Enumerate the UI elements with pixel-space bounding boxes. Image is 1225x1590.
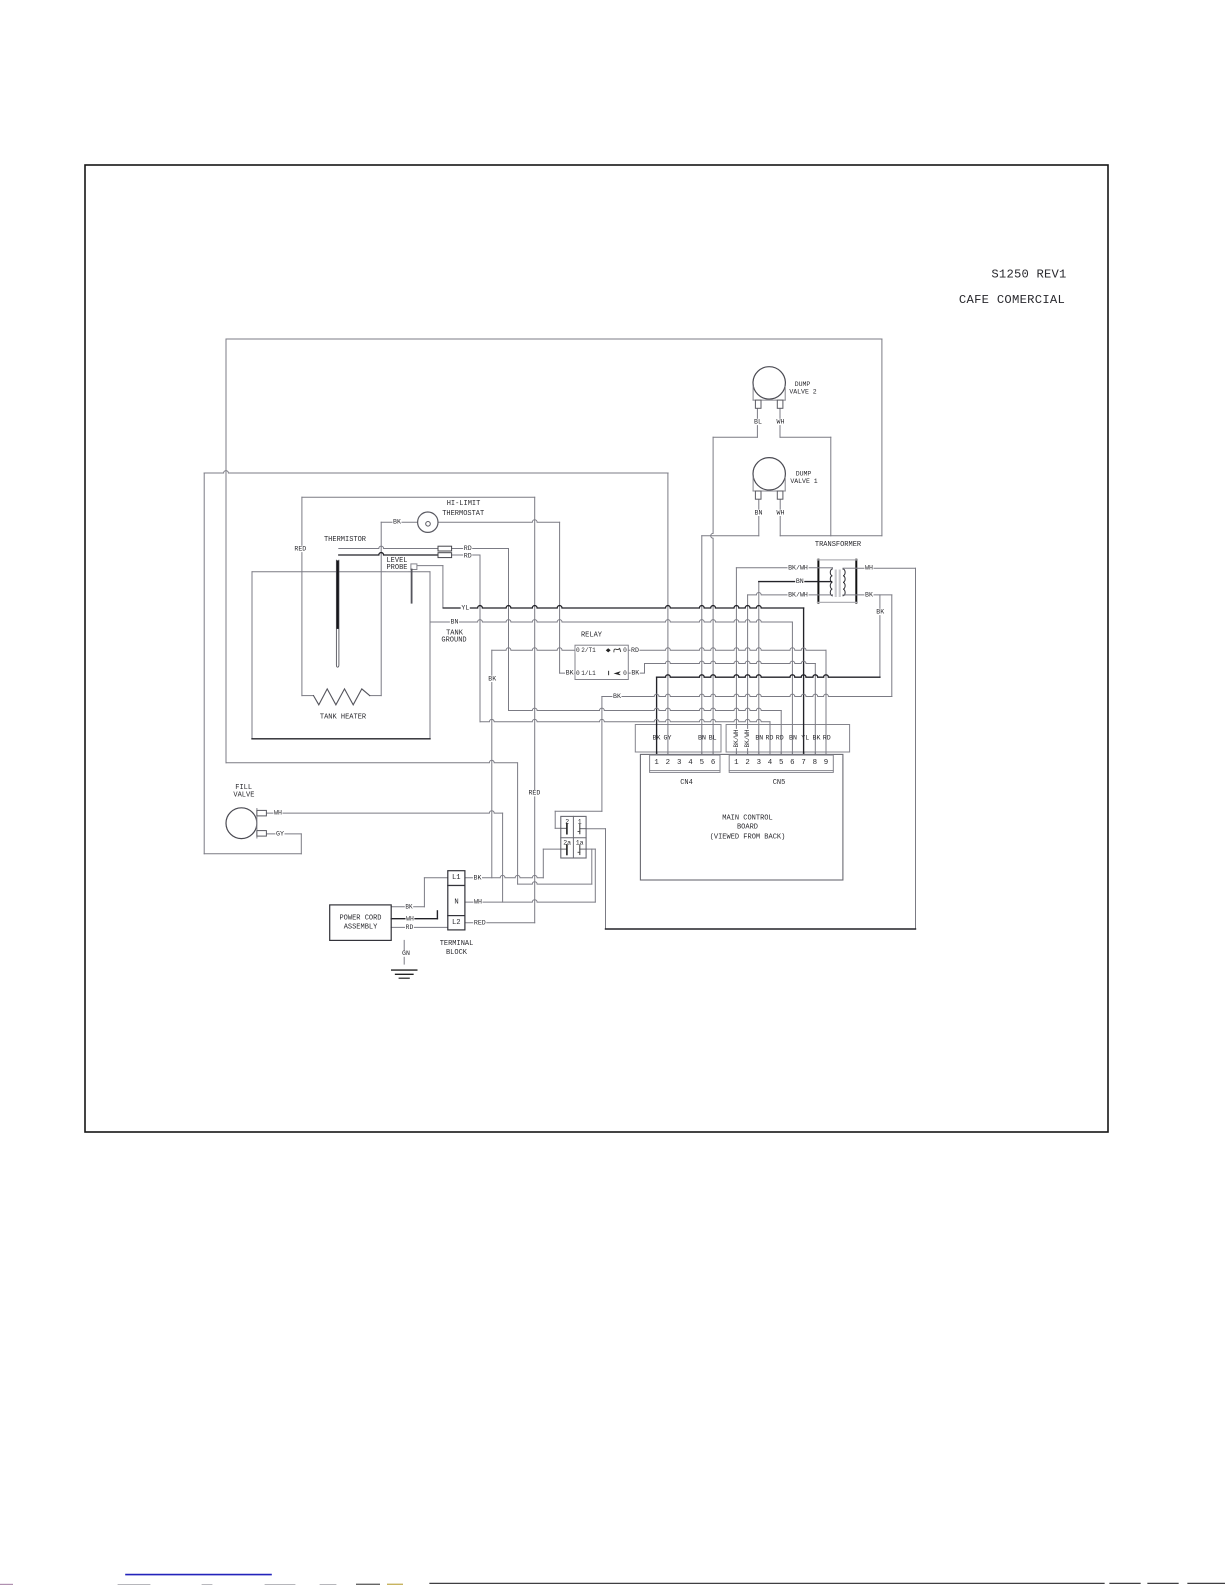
- svg-text:RD: RD: [464, 553, 472, 560]
- svg-text:5: 5: [779, 759, 783, 767]
- svg-text:6: 6: [711, 759, 715, 767]
- svg-text:4: 4: [768, 759, 773, 767]
- svg-text:HI-LIMIT: HI-LIMIT: [447, 500, 481, 508]
- svg-text:BL: BL: [754, 418, 762, 425]
- svg-text:RELAY: RELAY: [581, 632, 603, 640]
- svg-text:WH: WH: [274, 810, 282, 817]
- svg-text:DUMP: DUMP: [795, 381, 811, 388]
- svg-text:BK: BK: [865, 591, 873, 598]
- svg-text:GY: GY: [664, 735, 672, 742]
- svg-text:BK: BK: [474, 874, 482, 881]
- svg-text:CAFE COMERCIAL: CAFE COMERCIAL: [959, 293, 1065, 307]
- svg-text:BK: BK: [613, 693, 621, 700]
- svg-text:WH: WH: [474, 899, 482, 906]
- svg-text:2: 2: [745, 759, 749, 767]
- svg-text:BK: BK: [566, 670, 574, 677]
- svg-text:RD: RD: [766, 735, 774, 742]
- svg-text:BK/WH: BK/WH: [733, 729, 740, 747]
- svg-text:1/L1: 1/L1: [581, 670, 596, 677]
- svg-text:POWER CORD: POWER CORD: [339, 915, 381, 923]
- svg-text:L1: L1: [452, 874, 461, 882]
- svg-text:GROUND: GROUND: [441, 636, 466, 644]
- svg-text:BLOCK: BLOCK: [446, 949, 468, 957]
- svg-text:RD: RD: [631, 647, 639, 654]
- svg-text:2: 2: [565, 818, 569, 825]
- svg-text:TANK HEATER: TANK HEATER: [320, 714, 367, 722]
- svg-text:PROBE: PROBE: [386, 564, 407, 572]
- svg-text:1: 1: [734, 759, 739, 767]
- svg-text:CN4: CN4: [680, 779, 693, 787]
- svg-text:BK: BK: [813, 735, 821, 742]
- svg-text:RD: RD: [823, 735, 831, 742]
- svg-text:BN: BN: [796, 578, 804, 585]
- svg-text:YL: YL: [801, 735, 809, 742]
- svg-text:TRANSFORMER: TRANSFORMER: [815, 541, 862, 549]
- svg-text:RD: RD: [464, 545, 472, 552]
- svg-text:6: 6: [790, 759, 794, 767]
- svg-text:0: 0: [623, 647, 627, 654]
- svg-text:ASSEMBLY: ASSEMBLY: [344, 924, 378, 932]
- svg-text:2: 2: [666, 759, 670, 767]
- svg-text:2/T1: 2/T1: [581, 647, 596, 654]
- svg-text:DUMP: DUMP: [796, 471, 812, 478]
- svg-text:9: 9: [824, 759, 828, 767]
- svg-text:RED: RED: [528, 790, 540, 797]
- svg-text:TERMINAL: TERMINAL: [440, 940, 474, 948]
- svg-text:RD: RD: [406, 924, 414, 931]
- svg-text:4: 4: [688, 759, 693, 767]
- svg-text:THERMISTOR: THERMISTOR: [324, 536, 367, 544]
- svg-text:RD: RD: [776, 735, 784, 742]
- svg-text:GY: GY: [276, 830, 284, 837]
- svg-text:WH: WH: [865, 565, 873, 572]
- svg-text:WH: WH: [406, 915, 414, 922]
- svg-text:BK: BK: [393, 519, 401, 526]
- svg-text:3: 3: [757, 759, 761, 767]
- svg-text:BL: BL: [709, 735, 717, 742]
- svg-text:N: N: [454, 898, 458, 906]
- svg-text:3: 3: [677, 759, 681, 767]
- svg-text:0: 0: [576, 670, 580, 677]
- svg-text:BK: BK: [405, 903, 413, 910]
- svg-text:5: 5: [700, 759, 704, 767]
- svg-text:BN: BN: [451, 619, 459, 626]
- svg-text:2a: 2a: [563, 840, 571, 847]
- svg-text:THERMOSTAT: THERMOSTAT: [442, 510, 484, 518]
- svg-text:BN: BN: [755, 735, 763, 742]
- svg-text:BK: BK: [653, 735, 661, 742]
- svg-text:(VIEWED FROM BACK): (VIEWED FROM BACK): [710, 834, 786, 842]
- svg-text:WH: WH: [777, 418, 785, 425]
- svg-text:WH: WH: [777, 509, 785, 516]
- svg-text:VALVE: VALVE: [233, 792, 254, 800]
- svg-text:GN: GN: [402, 950, 410, 957]
- svg-text:BN: BN: [755, 509, 763, 516]
- svg-text:BK/WH: BK/WH: [744, 729, 751, 747]
- svg-text:MAIN CONTROL: MAIN CONTROL: [722, 815, 772, 823]
- svg-text:BK/WH: BK/WH: [788, 591, 808, 598]
- svg-text:BK: BK: [876, 608, 884, 615]
- svg-text:YL: YL: [461, 605, 469, 612]
- svg-text:BK/WH: BK/WH: [788, 564, 808, 571]
- svg-text:CN5: CN5: [773, 779, 786, 787]
- svg-text:VALVE 2: VALVE 2: [789, 389, 816, 396]
- svg-text:BK: BK: [488, 675, 496, 682]
- svg-text:0: 0: [623, 670, 627, 677]
- svg-text:BOARD: BOARD: [737, 824, 758, 832]
- svg-text:VALVE 1: VALVE 1: [790, 478, 817, 485]
- svg-text:BN: BN: [789, 735, 797, 742]
- svg-text:L2: L2: [452, 919, 461, 927]
- svg-text:1: 1: [578, 818, 582, 825]
- svg-text:0: 0: [576, 647, 580, 654]
- svg-text:BK: BK: [631, 670, 639, 677]
- svg-text:BN: BN: [698, 735, 706, 742]
- svg-text:7: 7: [801, 759, 805, 767]
- svg-text:RED: RED: [474, 919, 486, 926]
- svg-text:S1250 REV1: S1250 REV1: [991, 268, 1066, 282]
- svg-text:1: 1: [654, 759, 659, 767]
- svg-text:8: 8: [813, 759, 817, 767]
- svg-text:1a: 1a: [576, 840, 584, 847]
- svg-text:RED: RED: [294, 545, 306, 552]
